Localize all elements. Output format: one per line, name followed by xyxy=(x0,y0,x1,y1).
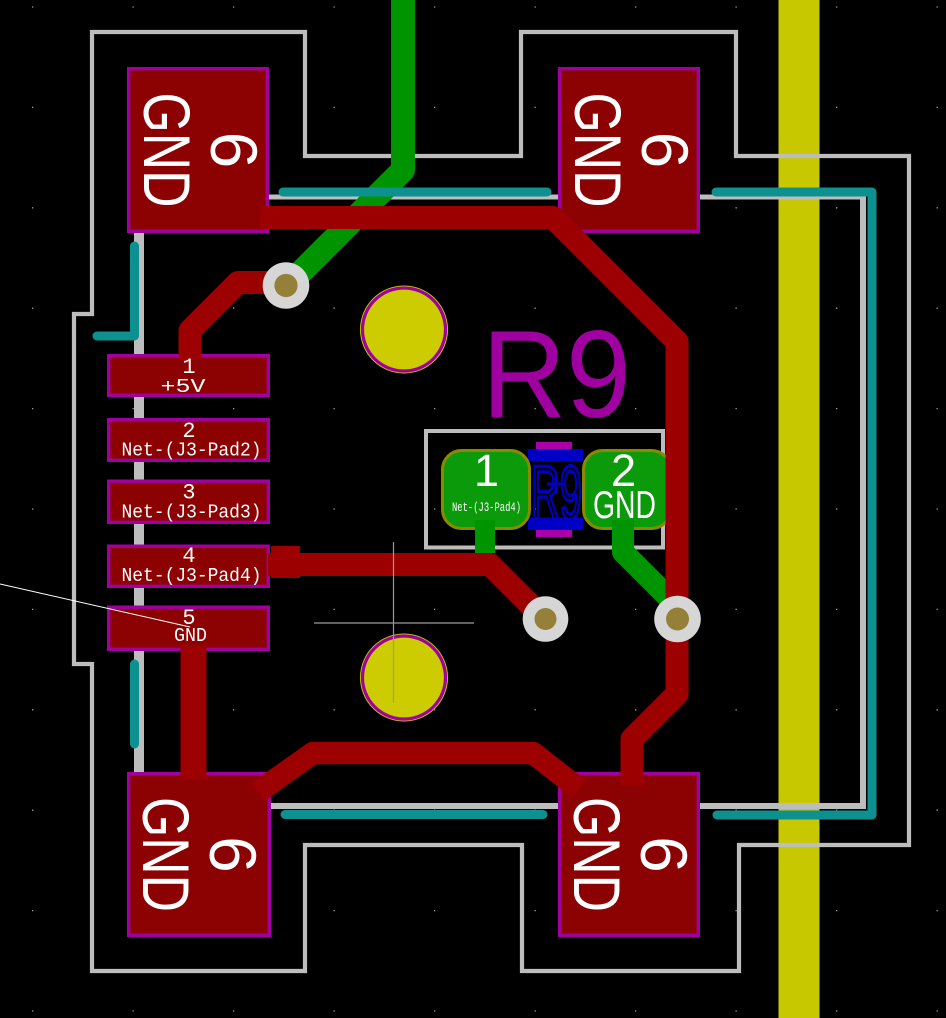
svg-text:GND: GND xyxy=(593,484,656,527)
svg-text:GND: GND xyxy=(174,625,207,647)
svg-text:GND: GND xyxy=(129,797,203,912)
svg-text:6: 6 xyxy=(627,836,701,873)
svg-text:Net-(J3-Pad4): Net-(J3-Pad4) xyxy=(122,565,262,587)
svg-text:1: 1 xyxy=(474,445,499,496)
svg-text:GND: GND xyxy=(561,93,635,208)
svg-text:Net-(J3-Pad3): Net-(J3-Pad3) xyxy=(122,502,262,524)
svg-text:Net-(J3-Pad2): Net-(J3-Pad2) xyxy=(122,440,262,462)
svg-text:R9: R9 xyxy=(531,451,582,536)
svg-text:6: 6 xyxy=(196,836,270,873)
svg-text:6: 6 xyxy=(628,132,702,169)
svg-text:GND: GND xyxy=(130,93,204,208)
svg-text:R9: R9 xyxy=(482,306,631,444)
svg-text:+5V: +5V xyxy=(161,376,207,398)
svg-text:Net-(J3-Pad4): Net-(J3-Pad4) xyxy=(452,500,521,515)
svg-text:6: 6 xyxy=(197,132,271,169)
svg-text:GND: GND xyxy=(560,797,634,912)
